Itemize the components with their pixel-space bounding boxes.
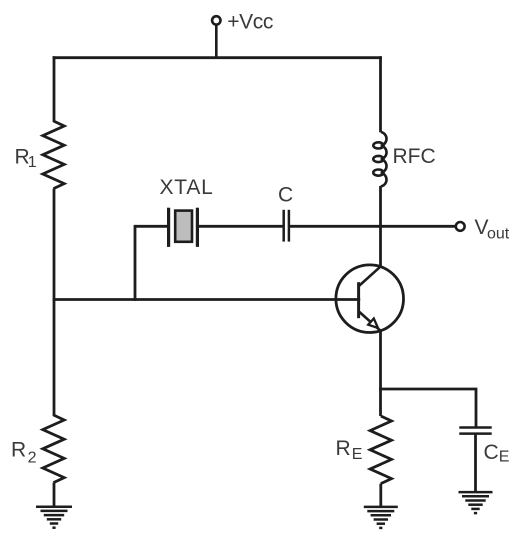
label R2 [11, 439, 37, 467]
ground below RE [364, 507, 398, 528]
capacitor C [284, 210, 289, 242]
wire emitter vertical [379, 330, 382, 416]
wire left vertical lower [53, 300, 56, 417]
svg-text:R: R [11, 439, 26, 462]
wire RE to ground [379, 484, 382, 507]
wire left vertical middle [53, 189, 56, 301]
capacitor CE [459, 428, 491, 434]
svg-text:XTAL: XTAL [160, 176, 214, 199]
svg-text:C: C [484, 441, 499, 464]
label Vout [475, 216, 510, 243]
ground below R2 [36, 507, 72, 528]
terminal Vout [456, 222, 465, 231]
ground below CE [459, 492, 493, 513]
svg-text:C: C [278, 184, 293, 207]
resistor RE [370, 416, 391, 484]
wire RFC to collector [379, 186, 382, 267]
svg-text:out: out [487, 226, 510, 243]
resistor R1 [43, 121, 64, 189]
label R1 [15, 145, 37, 170]
svg-text:R: R [336, 437, 351, 460]
svg-text:E: E [499, 448, 510, 465]
wire emitter branch to CE [379, 389, 476, 428]
label CE [484, 441, 510, 465]
transistor Q1 [336, 265, 404, 333]
wire CE to ground [474, 434, 477, 492]
wire XTAL left lead [135, 226, 168, 301]
inductor RFC [373, 132, 386, 186]
label RE [336, 437, 363, 463]
wire C to Vout [290, 225, 456, 228]
wire right vertical upper [379, 56, 382, 132]
svg-text:E: E [352, 446, 363, 463]
crystal XTAL [169, 208, 198, 247]
wire top rail [53, 56, 382, 59]
wire left vertical upper [53, 56, 56, 122]
wire base rail [53, 298, 361, 301]
svg-text:RFC: RFC [393, 145, 436, 168]
wire crystal to C [199, 225, 283, 228]
svg-text:1: 1 [28, 154, 37, 171]
wire R2 to ground [53, 483, 56, 507]
svg-text:2: 2 [28, 449, 37, 466]
resistor R2 [43, 415, 64, 483]
svg-text:+Vcc: +Vcc [227, 11, 273, 34]
power terminal +Vcc [212, 16, 220, 59]
